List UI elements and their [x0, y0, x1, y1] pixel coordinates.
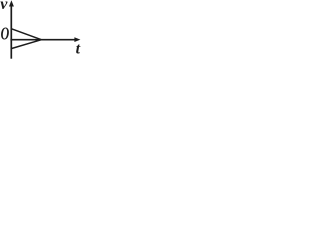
t-axis arrowhead: [74, 37, 80, 42]
triangle top line: [11, 29, 41, 40]
t-axis (horizontal): [10, 39, 75, 41]
v-t graph diagram: [0, 0, 84, 72]
svg-text:v: v: [0, 0, 8, 13]
background: [0, 0, 84, 72]
triangle bottom line: [11, 40, 41, 49]
svg-text:t: t: [76, 41, 81, 58]
v-axis arrowhead: [9, 0, 14, 6]
svg-text:O: O: [1, 25, 10, 44]
v-axis (vertical): [10, 5, 12, 59]
